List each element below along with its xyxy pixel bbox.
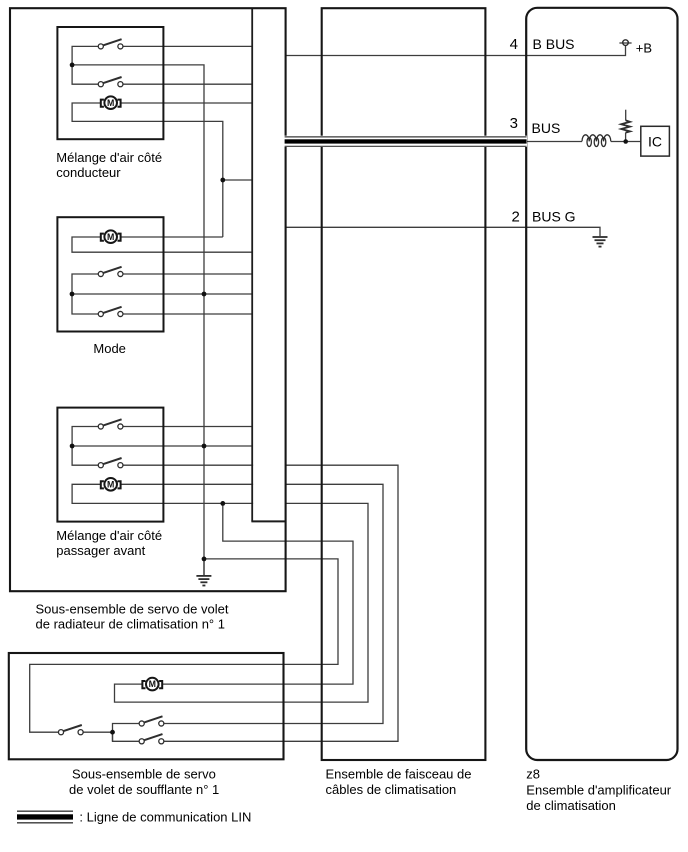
junction dot bottom box switches bbox=[110, 730, 115, 735]
svg-text:: Ligne de communication LIN: : Ligne de communication LIN bbox=[79, 810, 251, 825]
svg-text:4: 4 bbox=[510, 36, 518, 53]
wire box2 common node to connector strip bbox=[72, 293, 252, 295]
motor box1 M bbox=[101, 96, 121, 109]
junction dot ground bus bbox=[202, 557, 207, 562]
wire box1 switch1 left bbox=[72, 46, 98, 65]
junction dot box3 common left bbox=[70, 444, 75, 449]
wire box1 switch1 output to connector strip bbox=[123, 45, 252, 47]
motor box2 M bbox=[101, 230, 121, 243]
IC box U1 bbox=[641, 126, 670, 156]
junction dot riser y180 bbox=[220, 178, 225, 183]
wire box3 common node to connector strip bbox=[72, 445, 252, 447]
wire box1 common node to vertical bus bbox=[72, 65, 204, 575]
switch bottom box left bbox=[58, 725, 83, 735]
wire box2 motor loop bottom to connector strip bbox=[72, 237, 252, 252]
switch box1 S1 bbox=[98, 39, 123, 49]
wire resistor stem top bbox=[625, 110, 627, 121]
switch bottom box B bbox=[139, 734, 164, 744]
ground symbol left box bbox=[196, 576, 211, 586]
svg-text:BUS G: BUS G bbox=[532, 209, 576, 225]
junction dot bus at y294 bbox=[202, 292, 207, 297]
wire B BUS from connector to +B terminal bbox=[286, 45, 626, 55]
svg-text:M: M bbox=[107, 479, 114, 489]
svg-text:B BUS: B BUS bbox=[533, 36, 575, 52]
wire box1 switch2 left bbox=[72, 65, 98, 84]
svg-text:Sous-ensemble de servo de vole: Sous-ensemble de servo de volet bbox=[36, 601, 229, 616]
inductor L noise filter coil bbox=[582, 135, 611, 147]
switch box3 S2 bbox=[98, 458, 123, 468]
wire BUS G from connector to ground bbox=[286, 227, 600, 236]
resistor R pull-up zigzag bbox=[621, 120, 630, 132]
wire box3 motor loop bottom into harness loop 3 bbox=[72, 484, 368, 702]
svg-text:z8: z8 bbox=[526, 767, 540, 782]
wire bottom box switch B branch bbox=[113, 732, 140, 741]
connector outline: air mix driver side (box 1) bbox=[57, 27, 163, 139]
LIN communication line (triple) bbox=[285, 137, 527, 146]
wire box2 motor right to vertical riser bbox=[121, 236, 223, 238]
svg-text:Sous-ensemble de servo: Sous-ensemble de servo bbox=[72, 767, 216, 782]
connector outline: air conditioning amplifier (rounded box) bbox=[526, 8, 677, 760]
svg-text:Ensemble d'amplificateur: Ensemble d'amplificateur bbox=[526, 782, 671, 797]
LIN communication line white backing bbox=[284, 136, 527, 147]
wire box3 switch2 row into harness loop 1 bbox=[123, 465, 398, 741]
wire box2 switch2 output to connector strip bbox=[123, 313, 252, 315]
svg-text:BUS: BUS bbox=[532, 120, 561, 136]
wire BUS from amplifier edge to inductor bbox=[526, 141, 582, 143]
wire inductor to IC with junction bbox=[611, 141, 641, 143]
wire box3 switch1 output to connector strip bbox=[123, 426, 252, 428]
switch box2 S1 bbox=[98, 267, 123, 277]
wire box1 motor loop left and bottom bbox=[72, 103, 223, 237]
wire ground bus to ground symbol bbox=[203, 559, 205, 575]
junction dot loop4 riser bbox=[220, 501, 225, 506]
connector outline: air mix front passenger side (box 3) bbox=[57, 408, 163, 522]
svg-text:de volet de soufflante n° 1: de volet de soufflante n° 1 bbox=[69, 782, 219, 797]
ground symbol BUS G bbox=[593, 237, 608, 247]
svg-text:M: M bbox=[149, 679, 156, 689]
svg-text:Ensemble de faisceau de: Ensemble de faisceau de bbox=[326, 767, 472, 782]
wire box1 switch2 output to connector strip bbox=[123, 83, 252, 85]
switch box2 S2 bbox=[98, 307, 123, 317]
wire branch at node to connector strip y180 bbox=[223, 179, 252, 181]
wire box3 switch2 left bbox=[72, 446, 98, 465]
junction dot bus at y446 bbox=[202, 444, 207, 449]
svg-text:de climatisation: de climatisation bbox=[526, 798, 616, 813]
connector outline: servo sub-assembly no.1 (left outer box) bbox=[10, 8, 286, 591]
junction dot box2 common left bbox=[70, 292, 75, 297]
motor box3 M bbox=[101, 478, 121, 491]
svg-text:Mélange d'air côté: Mélange d'air côté bbox=[56, 528, 162, 543]
wire harness loop 5 from ground bus node bbox=[30, 559, 338, 732]
svg-text:IC: IC bbox=[648, 134, 662, 150]
svg-text:conducteur: conducteur bbox=[56, 165, 121, 180]
+B battery terminal bbox=[619, 40, 631, 46]
svg-text:Mélange d'air côté: Mélange d'air côté bbox=[56, 150, 162, 165]
connector strip bottom border bbox=[251, 520, 286, 522]
wire resistor bottom to junction bbox=[625, 133, 627, 142]
svg-text:2: 2 bbox=[511, 209, 519, 226]
connector outline: mode (box 2) bbox=[57, 217, 163, 331]
svg-text:M: M bbox=[107, 232, 114, 242]
LIN legend symbol bbox=[17, 811, 73, 823]
switch bottom box A bbox=[139, 716, 164, 726]
connector strip left border bbox=[251, 8, 253, 522]
svg-text:passager avant: passager avant bbox=[56, 543, 145, 558]
wire box2 switch1 output to connector strip bbox=[123, 273, 252, 275]
junction dot BUS resistor node bbox=[623, 139, 628, 144]
svg-text:Mode: Mode bbox=[93, 341, 126, 356]
wire harness loop 4 riser from node bbox=[163, 503, 353, 684]
wire box3 switch1 left bbox=[72, 427, 98, 447]
wire bottom box switch A branch bbox=[113, 724, 140, 742]
connector outline: air conditioning harness (middle box) bbox=[322, 8, 486, 760]
svg-text:+B: +B bbox=[636, 41, 652, 56]
wire bottom box switch common bbox=[83, 731, 112, 733]
svg-text:M: M bbox=[107, 98, 114, 108]
connector strip pass-through (white mask) bbox=[253, 9, 285, 521]
wire box2 switch1 left bbox=[72, 274, 98, 294]
wire box2 switch2 left bbox=[72, 294, 98, 314]
svg-text:de radiateur de climatisation: de radiateur de climatisation n° 1 bbox=[36, 616, 225, 631]
wire box3 motor row into harness loop 2 bbox=[121, 484, 383, 723]
junction dot box1 common bbox=[70, 63, 75, 68]
svg-text:3: 3 bbox=[510, 115, 518, 132]
wire box1 motor right output to connector strip bbox=[121, 102, 252, 104]
connector outline: blower damper servo sub-assembly (bottom box) bbox=[9, 653, 284, 759]
switch box3 S1 bbox=[98, 419, 123, 429]
motor bottom box M bbox=[142, 678, 162, 691]
switch box1 S2 bbox=[98, 77, 123, 87]
svg-text:câbles de climatisation: câbles de climatisation bbox=[326, 782, 457, 797]
